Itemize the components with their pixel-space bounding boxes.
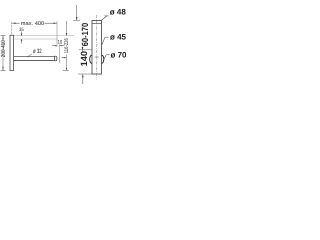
svg-text:140: 140 <box>79 51 89 67</box>
svg-text:ø 48: ø 48 <box>110 8 127 17</box>
svg-text:ø 70: ø 70 <box>111 51 128 60</box>
svg-text:10: 10 <box>58 39 63 45</box>
svg-text:200-410: 200-410 <box>0 40 7 58</box>
svg-text:max. 400: max. 400 <box>21 21 44 27</box>
svg-text:116-226: 116-226 <box>64 38 70 53</box>
svg-text:60-170: 60-170 <box>80 23 90 47</box>
svg-text:ø 45: ø 45 <box>110 33 127 42</box>
svg-text:ø 32: ø 32 <box>33 48 42 55</box>
